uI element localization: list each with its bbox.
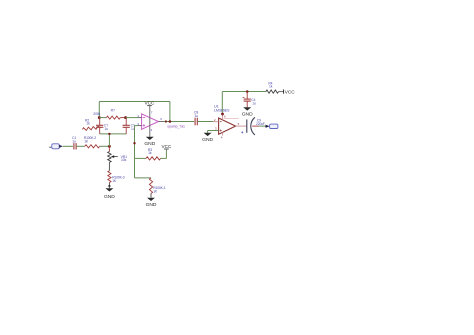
wire pin3 to bias node [133,126,137,159]
wire C9 to out port [252,125,265,127]
LM386 labels [214,104,230,112]
resistor R100K-2 1K [84,136,100,148]
wire bias to R3 [135,157,147,159]
ground under R100K-1 [146,197,157,208]
svg-text:1u: 1u [194,114,198,118]
wire C8 to LM386 [197,121,213,123]
svg-text:opamp_7a1: opamp_7a1 [167,125,185,129]
resistor R4 1k [266,82,279,94]
wire R3 to VCC [161,149,167,158]
capacitor C4 1u [243,92,256,108]
svg-text:1u: 1u [105,127,109,131]
resistor R100K-3 1K [108,171,125,183]
wire op-amp output [163,121,194,123]
wire LM386 pin3 to gnd [208,131,219,133]
node B junction [98,116,101,119]
wire bias down to R100K-1 [135,158,152,178]
lead to ground 2 [150,194,152,198]
capacitor C? 1u right [123,118,135,134]
svg-text:VCC: VCC [285,89,296,94]
VCC above op-amp [145,101,156,106]
wire R100K-2 to node A [100,145,110,147]
pin6 junction [221,113,224,116]
svg-text:7: 7 [151,110,153,114]
wire VCC rail right [222,92,266,114]
svg-text:5: 5 [238,122,240,126]
svg-text:3: 3 [215,126,217,130]
ground at LM386 input [202,133,213,144]
node C junction [124,116,127,119]
output port [266,124,278,128]
capacitor C1 1u [72,136,76,150]
op-amp output stub [158,121,163,123]
wire node A up [108,134,110,146]
svg-text:1u: 1u [252,102,256,106]
svg-text:10k: 10k [121,158,127,162]
rail junction [246,90,249,93]
svg-text:R?: R? [111,109,115,113]
LM386 U1 body [219,118,236,134]
VCC at R3 [161,144,172,149]
wire LM386 output [236,125,247,127]
svg-text:1K: 1K [112,179,117,183]
svg-text:GND: GND [242,112,253,118]
svg-text:GND: GND [144,141,155,147]
svg-text:1k: 1k [148,151,152,155]
output junction dots [165,120,171,123]
wire feedback top rail [99,102,170,122]
net label opamp_7a1 [167,125,185,129]
capacitor C? 1u left [96,118,108,134]
wire caps bottom rail [100,133,127,135]
svg-text:GND: GND [146,202,157,208]
ground under op-amp [144,137,155,148]
potentiometer VR1 10k [108,146,127,162]
wire C1 to R100K-2 [76,145,85,147]
svg-text:200k: 200k [93,112,100,116]
LM386 pin numbers [214,114,240,139]
node A junction [108,145,111,148]
svg-text:GND: GND [104,194,115,200]
svg-text:220uF: 220uF [256,122,265,126]
op-amp input stubs [138,118,142,126]
resistor R3 1k [146,148,161,160]
LM386 pin stubs [213,114,238,136]
svg-text:1u: 1u [72,139,76,143]
svg-text:4: 4 [151,128,153,132]
wire input to C1 [63,145,73,147]
input port IN [49,144,62,149]
ground under R100K-3 [104,186,115,200]
wire node C to op-amp [126,117,138,119]
resistor R100K-1 1K [149,178,165,194]
svg-text:VCC: VCC [145,101,156,106]
svg-text:6: 6 [160,117,162,121]
svg-text:2: 2 [214,118,216,122]
svg-text:+: + [241,130,244,135]
op-amp power line [149,106,151,137]
ground under C4 [242,107,253,118]
resistor R2 1k [82,119,99,131]
op-amp pin numbers [137,110,162,131]
svg-text:1k: 1k [269,85,273,89]
svg-text:VCC: VCC [161,144,172,149]
op-amp U2 body [142,114,159,129]
svg-text:1k: 1k [86,121,90,125]
wire VR1 to R100K-3 [108,162,110,170]
capacitor C9 220uF [241,117,265,135]
lead to ground [108,183,110,188]
junction on rail [108,133,110,135]
svg-text:GND: GND [202,137,213,143]
VCC at R4 [279,89,296,94]
resistor R? 200k feedback [93,109,125,120]
capacitor C8 1u [194,111,198,126]
svg-text:4: 4 [221,135,223,139]
svg-text:6: 6 [224,114,226,118]
